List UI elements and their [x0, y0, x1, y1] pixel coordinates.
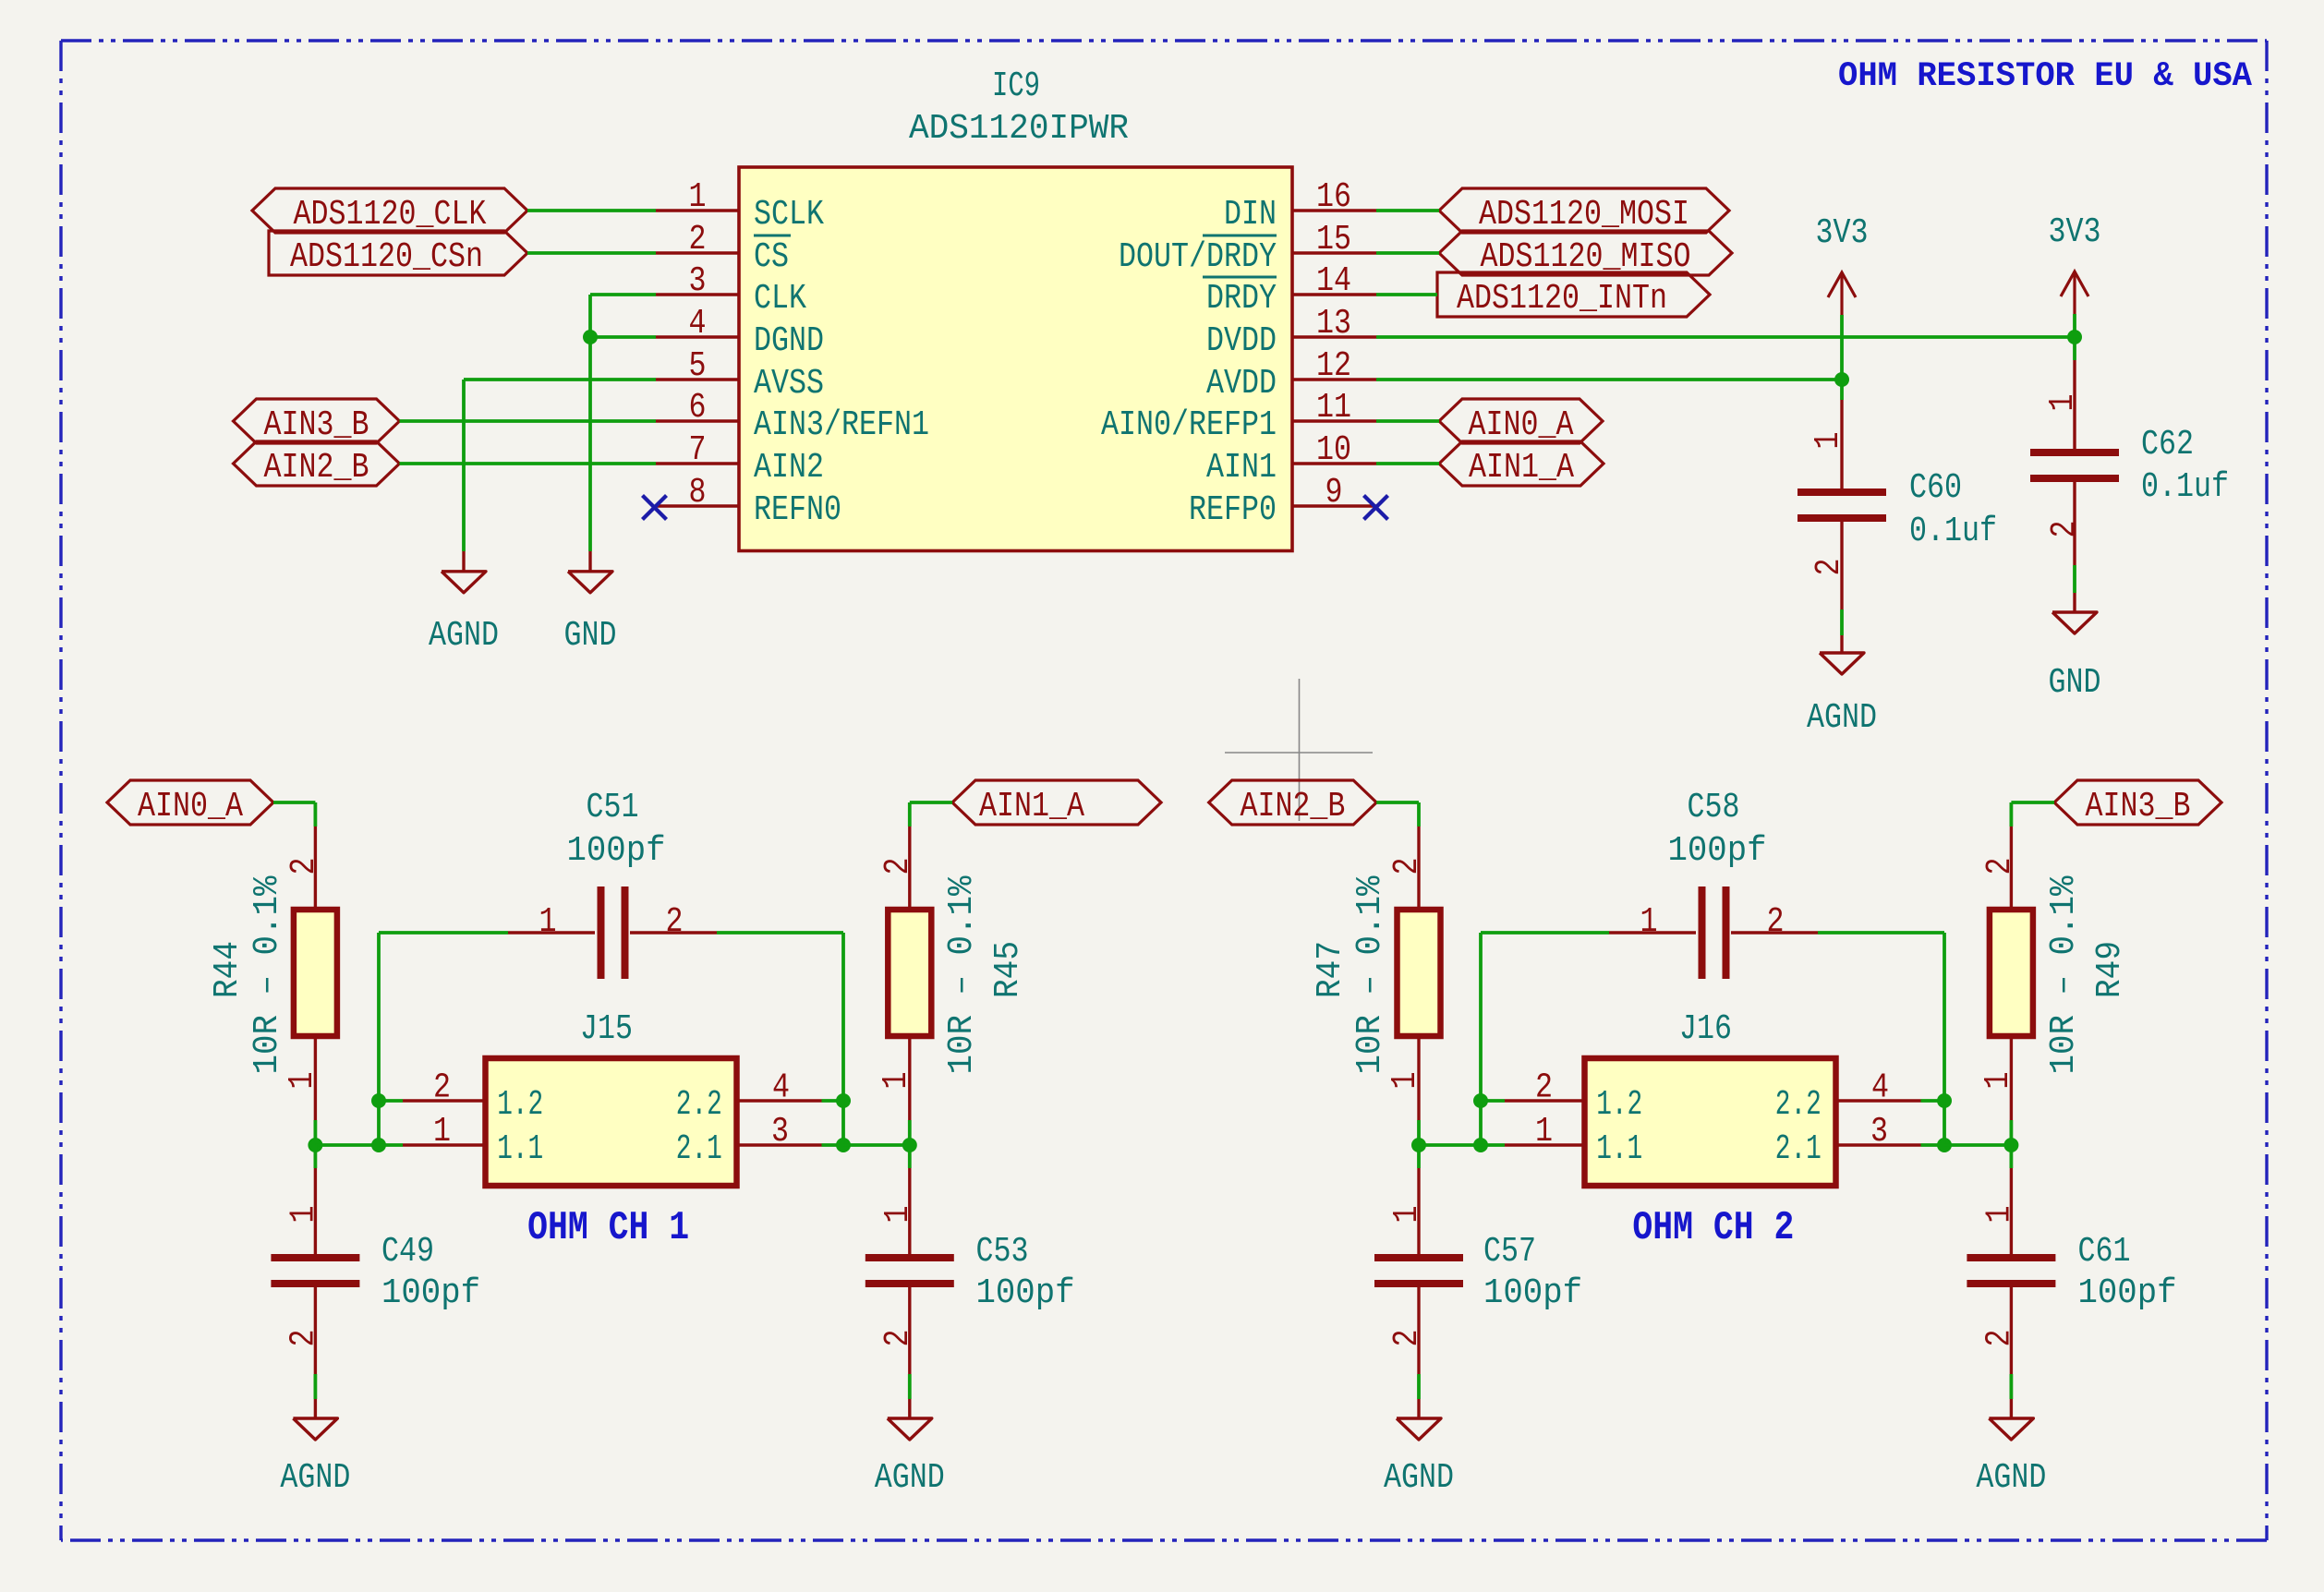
junction riser/pin2	[371, 1093, 386, 1108]
resistor R45	[888, 826, 931, 1120]
svg-text:10R – 0.1%: 10R – 0.1%	[248, 875, 287, 1074]
wire AVDD pin12 to 3V3/C60 column	[1376, 378, 1842, 381]
J15 pin 2	[379, 1068, 486, 1108]
wire pin11 to AIN0_A	[1376, 419, 1439, 423]
svg-text:AIN0/REFP1: AIN0/REFP1	[1101, 405, 1277, 445]
riser wire J15 left	[377, 933, 381, 1145]
wire C58 pin2 to right riser	[1818, 931, 1944, 935]
svg-text:1: 1	[284, 1206, 323, 1224]
svg-text:11: 11	[1316, 388, 1351, 428]
svg-text:10: 10	[1316, 430, 1351, 470]
svg-text:12: 12	[1316, 346, 1351, 386]
ground symbol AGND (AVSS)	[429, 551, 499, 656]
IC9 pin 4 (DGND)	[656, 304, 824, 361]
wire junction to J16 pin1 riser	[1419, 1143, 1481, 1147]
wire right riser to R49 column	[1944, 1143, 2011, 1147]
wire AVDD junction to C60 pin1	[1840, 380, 1844, 400]
wire junction to C61 pin1	[2009, 1145, 2013, 1168]
junction right riser/pin3	[1937, 1138, 1952, 1152]
svg-text:13: 13	[1316, 304, 1351, 344]
wire pin4 DGND to riser	[590, 335, 656, 339]
svg-text:1: 1	[877, 1072, 916, 1090]
svg-text:AIN1: AIN1	[1206, 448, 1277, 488]
wire R44 pin1 to junction	[313, 1120, 317, 1145]
svg-text:2: 2	[1810, 559, 1849, 576]
svg-text:5: 5	[689, 346, 707, 386]
ground symbol GND under C62	[2049, 593, 2101, 703]
no-connect X on pin 9 REFP0	[1364, 496, 1388, 520]
svg-text:DRDY: DRDY	[1206, 279, 1277, 319]
IC9 pin 3 (CLK)	[656, 261, 806, 319]
svg-text:1: 1	[2043, 394, 2083, 412]
svg-text:2: 2	[284, 858, 324, 875]
wire riser to C57 pin1	[1481, 931, 1609, 935]
svg-text:2: 2	[666, 902, 684, 942]
svg-text:10R – 0.1%: 10R – 0.1%	[1350, 875, 1390, 1074]
svg-text:AIN2_B: AIN2_B	[264, 448, 369, 488]
svg-text:2: 2	[689, 220, 707, 259]
svg-text:9: 9	[1325, 473, 1343, 513]
svg-text:J15: J15	[580, 1009, 633, 1049]
svg-text:SCLK: SCLK	[754, 195, 824, 235]
wire C53 pin2 to AGND	[908, 1374, 912, 1399]
svg-text:100pf: 100pf	[381, 1273, 480, 1313]
svg-text:R45: R45	[988, 941, 1028, 998]
power symbol 3V3 (left)	[1816, 213, 1869, 315]
svg-text:6: 6	[689, 388, 707, 428]
svg-text:AGND: AGND	[875, 1458, 945, 1498]
connector J15 body	[486, 1009, 737, 1186]
J16 pin 2	[1481, 1068, 1585, 1108]
IC9 pin 15 (DOUT/DRDY)	[1119, 220, 1376, 277]
wire junction to J15 pin1 riser	[315, 1143, 379, 1147]
global label AIN1_A (channel 1)	[952, 780, 1161, 826]
svg-text:C51: C51	[587, 788, 639, 827]
svg-text:R47: R47	[1311, 941, 1350, 998]
svg-text:R44: R44	[208, 941, 248, 998]
svg-text:2: 2	[1980, 858, 2020, 875]
wire 3V3 down across DVDD to AVDD junction	[1840, 315, 1844, 380]
junction right riser/pin3	[836, 1138, 851, 1152]
svg-text:0.1uf: 0.1uf	[1909, 512, 1997, 551]
IC9 pin 8 (REFN0)	[656, 473, 841, 530]
svg-text:2.2: 2.2	[676, 1085, 722, 1125]
svg-text:1: 1	[1979, 1072, 2018, 1090]
resistor R49	[1990, 826, 2033, 1120]
svg-text:CS: CS	[754, 237, 789, 277]
svg-text:1: 1	[878, 1206, 918, 1224]
svg-text:2: 2	[2045, 521, 2085, 538]
capacitor C61	[1967, 1168, 2055, 1374]
svg-text:1: 1	[1979, 1206, 2019, 1224]
ground symbol AGND under C61	[1976, 1399, 2046, 1498]
wire R47 pin1 to junction	[1417, 1120, 1421, 1145]
global label ADS1120_CSn	[269, 231, 527, 277]
global label AIN3_B (IC side)	[234, 399, 400, 445]
svg-text:7: 7	[689, 430, 707, 470]
svg-text:R49: R49	[2090, 941, 2130, 998]
svg-text:DVDD: DVDD	[1206, 321, 1277, 361]
svg-text:ADS1120_CLK: ADS1120_CLK	[294, 195, 487, 235]
svg-text:ADS1120_CSn: ADS1120_CSn	[290, 237, 483, 277]
svg-text:AIN3/REFN1: AIN3/REFN1	[754, 405, 929, 445]
svg-text:AIN1_A: AIN1_A	[979, 787, 1084, 826]
svg-text:1: 1	[1640, 902, 1658, 942]
svg-text:8: 8	[689, 473, 707, 513]
IC9 pin 5 (AVSS)	[656, 346, 824, 404]
wire right riser to R45 column	[843, 1143, 910, 1147]
J15 pin 4	[737, 1068, 844, 1108]
svg-text:3: 3	[689, 261, 707, 301]
ground symbol GND (CLK/DGND)	[564, 551, 617, 656]
svg-text:ADS1120_INTn: ADS1120_INTn	[1457, 279, 1667, 319]
global label AIN3_B (channel 2)	[2054, 780, 2221, 826]
IC9 pin 12 (AVDD)	[1206, 346, 1376, 404]
IC9 pin 13 (DVDD)	[1206, 304, 1376, 361]
svg-text:3: 3	[1870, 1112, 1888, 1152]
svg-text:2.1: 2.1	[676, 1129, 722, 1169]
ground symbol AGND under C60	[1807, 635, 1877, 738]
svg-text:1: 1	[433, 1112, 451, 1152]
junction riser/pin1	[371, 1138, 386, 1152]
svg-text:2.1: 2.1	[1775, 1129, 1822, 1169]
capacitor C62	[2030, 360, 2119, 565]
svg-text:AVSS: AVSS	[754, 364, 824, 404]
global label AIN2_B (channel 2)	[1209, 780, 1377, 826]
capacitor C60	[1797, 400, 1886, 609]
junction right riser/pin4	[1937, 1093, 1952, 1108]
global label AIN2_B (IC side)	[234, 441, 400, 488]
wire AIN3_B to R49 pin2	[2011, 802, 2054, 826]
svg-text:100pf: 100pf	[976, 1273, 1075, 1313]
svg-text:1.2: 1.2	[1596, 1085, 1642, 1125]
svg-text:CLK: CLK	[754, 279, 806, 319]
svg-text:2.2: 2.2	[1775, 1085, 1822, 1125]
svg-text:1: 1	[283, 1072, 322, 1090]
wire C61 pin2 to AGND	[2009, 1374, 2013, 1399]
svg-text:C57: C57	[1483, 1232, 1536, 1272]
capacitor C51 (coupling)	[508, 886, 717, 979]
svg-text:2: 2	[433, 1068, 451, 1108]
IC9 pin 16 (DIN)	[1224, 177, 1376, 235]
no-connect X on pin 8 REFN0	[643, 496, 667, 520]
global label AIN0_A (IC side)	[1439, 399, 1603, 445]
svg-text:4: 4	[689, 304, 707, 344]
svg-text:14: 14	[1316, 261, 1351, 301]
IC9 pin 14 (DRDY)	[1203, 261, 1376, 319]
svg-text:1.1: 1.1	[1596, 1129, 1642, 1169]
junction riser/pin1	[1473, 1138, 1488, 1152]
svg-text:1: 1	[1386, 1072, 1425, 1090]
svg-text:1.2: 1.2	[497, 1085, 543, 1125]
svg-text:IC9: IC9	[992, 66, 1040, 106]
wire riser to C49 pin1	[379, 931, 508, 935]
global label ADS1120_MOSI	[1439, 188, 1729, 235]
global label AIN0_A (channel 1)	[107, 780, 273, 826]
ground symbol AGND under C49	[280, 1399, 350, 1498]
svg-text:AGND: AGND	[429, 616, 499, 656]
IC9 pin 9 (REFP0)	[1189, 473, 1376, 530]
svg-text:C58: C58	[1688, 788, 1740, 827]
wire DVDD pin13 to 3V3/C62 column	[1376, 335, 2075, 339]
wire pin6 to AIN3_B	[400, 419, 657, 423]
riser wire J15 right	[841, 933, 845, 1145]
wire pin1 to ADS1120_CLK	[527, 209, 656, 212]
J16 pin 1	[1481, 1112, 1585, 1152]
svg-text:2: 2	[878, 1330, 918, 1347]
svg-text:16: 16	[1316, 177, 1351, 217]
svg-text:100pf: 100pf	[567, 831, 666, 871]
svg-text:2: 2	[1767, 902, 1785, 942]
J15 pin 1	[379, 1112, 486, 1152]
crosshair origin marker	[1225, 679, 1373, 821]
svg-text:DIN: DIN	[1224, 195, 1277, 235]
capacitor C58 (coupling)	[1609, 886, 1818, 979]
svg-text:3V3: 3V3	[1816, 213, 1869, 253]
capacitor C57	[1374, 1168, 1463, 1374]
IC9 pin 1 (SCLK)	[656, 177, 824, 235]
svg-text:10R – 0.1%: 10R – 0.1%	[2044, 875, 2084, 1074]
junction R49 bottom	[2003, 1138, 2018, 1152]
svg-text:AIN1_A: AIN1_A	[1469, 448, 1574, 488]
IC9 pin 10 (AIN1)	[1206, 430, 1376, 488]
svg-text:100pf: 100pf	[2078, 1273, 2177, 1313]
svg-text:1: 1	[1809, 432, 1848, 450]
riser wire J16 right	[1943, 933, 1946, 1145]
global label ADS1120_CLK	[252, 188, 527, 235]
svg-text:4: 4	[772, 1068, 790, 1108]
IC9 pin 2 (CS)	[656, 220, 791, 277]
wire pin10 to AIN1_A	[1376, 462, 1439, 465]
svg-text:2: 2	[878, 858, 918, 875]
global label AIN1_A (IC side)	[1439, 441, 1604, 488]
wire pin5 AVSS to AGND riser	[464, 380, 656, 551]
junction at CLK/DGND riser	[583, 330, 598, 344]
svg-text:C53: C53	[976, 1232, 1029, 1272]
wire DVDD junction to C62 pin1	[2073, 337, 2076, 360]
wire junction to C53 pin1	[908, 1145, 912, 1168]
junction AVDD / C60	[1834, 372, 1849, 387]
junction R47 bottom	[1411, 1138, 1426, 1152]
junction R44 bottom	[308, 1138, 322, 1152]
svg-text:C60: C60	[1909, 468, 1962, 508]
svg-text:GND: GND	[564, 616, 617, 656]
junction DVDD / C62	[2067, 330, 2082, 344]
svg-text:C61: C61	[2078, 1232, 2131, 1272]
connector J16 body	[1585, 1009, 1836, 1186]
J15 pin 3	[737, 1112, 844, 1152]
svg-text:2: 2	[284, 1330, 323, 1347]
svg-text:REFP0: REFP0	[1189, 490, 1277, 530]
svg-text:2: 2	[1979, 1330, 2019, 1347]
wire 3V3 to DVDD junction	[2073, 314, 2076, 337]
wire pin2 to ADS1120_CSn	[527, 251, 656, 255]
global label ADS1120_MISO	[1439, 231, 1732, 277]
svg-text:AGND: AGND	[280, 1458, 350, 1498]
svg-text:1: 1	[1387, 1206, 1427, 1224]
resistor R47	[1398, 826, 1441, 1120]
svg-text:AIN0_A: AIN0_A	[138, 787, 243, 826]
svg-text:10R – 0.1%: 10R – 0.1%	[942, 875, 982, 1074]
wire R49 pin1 to junction	[2009, 1120, 2013, 1145]
svg-text:J16: J16	[1679, 1009, 1732, 1049]
svg-text:4: 4	[1871, 1068, 1889, 1108]
ground symbol AGND under C57	[1384, 1399, 1454, 1498]
svg-text:1: 1	[539, 902, 557, 942]
wire C60 pin2 to AGND	[1840, 609, 1844, 635]
wire C51 pin2 to right riser	[717, 931, 843, 935]
junction right riser/pin4	[836, 1093, 851, 1108]
svg-text:DOUT/DRDY: DOUT/DRDY	[1119, 237, 1277, 277]
capacitor C53	[865, 1168, 954, 1374]
junction riser/pin2	[1473, 1093, 1488, 1108]
wire AIN0_A to R44 pin2	[273, 802, 315, 826]
svg-text:AIN2: AIN2	[754, 448, 824, 488]
riser wire J16 left	[1479, 933, 1483, 1145]
J16 pin 3	[1836, 1112, 1945, 1152]
IC U IC9 ADS1120IPWR body	[739, 66, 1292, 551]
svg-text:AIN3_B: AIN3_B	[264, 405, 369, 445]
wire pin15 to ADS1120_MISO	[1376, 251, 1439, 255]
wire pin16 to ADS1120_MOSI	[1376, 209, 1439, 212]
svg-text:2: 2	[1387, 1330, 1427, 1347]
IC9 pin 6 (AIN3/REFN1)	[656, 388, 929, 445]
svg-text:3: 3	[771, 1112, 789, 1152]
capacitor C49	[271, 1168, 359, 1374]
wire C57 pin2 to AGND	[1417, 1374, 1421, 1399]
svg-text:C49: C49	[381, 1232, 434, 1272]
svg-text:AIN2_B: AIN2_B	[1240, 787, 1345, 826]
svg-text:REFN0: REFN0	[754, 490, 841, 530]
wire pin7 to AIN2_B	[400, 462, 657, 465]
svg-text:15: 15	[1316, 220, 1351, 259]
J16 pin 4	[1836, 1068, 1945, 1108]
IC9 pin 11 (AIN0/REFP1)	[1101, 388, 1376, 445]
ground symbol AGND under C53	[875, 1399, 945, 1498]
wire junction to C57 pin1	[1417, 1145, 1421, 1168]
resistor R44	[294, 826, 337, 1120]
wire AIN1_A to R45 pin2	[910, 802, 952, 826]
svg-text:3V3: 3V3	[2049, 212, 2101, 252]
svg-text:100pf: 100pf	[1483, 1273, 1582, 1313]
svg-text:ADS1120IPWR: ADS1120IPWR	[909, 109, 1129, 149]
wire junction to C49 pin1	[313, 1145, 317, 1168]
svg-text:0.1uf: 0.1uf	[2141, 467, 2229, 507]
svg-text:AVDD: AVDD	[1206, 364, 1277, 404]
wire pin14 to ADS1120_INTn	[1376, 293, 1437, 296]
svg-text:2: 2	[1535, 1068, 1553, 1108]
wire C49 pin2 to AGND	[313, 1374, 317, 1399]
svg-text:AIN0_A: AIN0_A	[1469, 405, 1574, 445]
svg-text:2: 2	[1387, 858, 1427, 875]
svg-text:DGND: DGND	[754, 321, 824, 361]
wire C62 pin2 to GND	[2073, 565, 2076, 593]
svg-text:OHM RESISTOR EU & USA: OHM RESISTOR EU & USA	[1838, 57, 2253, 96]
wire R45 pin1 to junction	[908, 1120, 912, 1145]
svg-text:GND: GND	[2049, 663, 2101, 703]
svg-text:OHM CH 2: OHM CH 2	[1632, 1205, 1794, 1251]
svg-text:C62: C62	[2141, 425, 2194, 464]
svg-text:1: 1	[689, 177, 707, 217]
IC9 pin 7 (AIN2)	[656, 430, 824, 488]
svg-text:AGND: AGND	[1807, 698, 1877, 738]
svg-text:AGND: AGND	[1976, 1458, 2046, 1498]
junction R45 bottom	[902, 1138, 917, 1152]
wire pin3 CLK to GND riser	[590, 295, 656, 551]
svg-text:100pf: 100pf	[1668, 831, 1767, 871]
svg-text:OHM CH 1: OHM CH 1	[527, 1205, 689, 1251]
wire AIN2_B to R47 pin2	[1376, 802, 1419, 826]
svg-text:1: 1	[1535, 1112, 1553, 1152]
power symbol 3V3 (right)	[2049, 212, 2101, 314]
svg-text:AIN3_B: AIN3_B	[2086, 787, 2191, 826]
global label ADS1120_INTn (flat-left)	[1437, 272, 1710, 319]
svg-text:AGND: AGND	[1384, 1458, 1454, 1498]
svg-text:ADS1120_MOSI: ADS1120_MOSI	[1479, 195, 1689, 235]
svg-text:1.1: 1.1	[497, 1129, 543, 1169]
